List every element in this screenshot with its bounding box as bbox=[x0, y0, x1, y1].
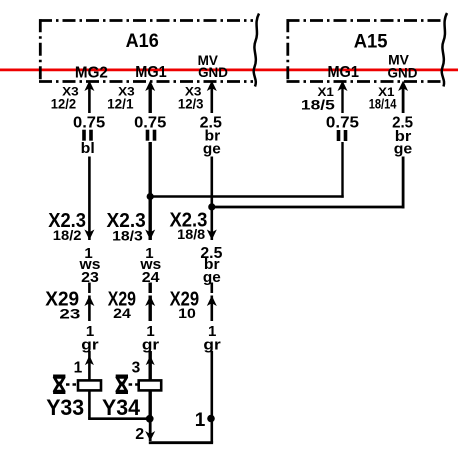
svg-text:12/2: 12/2 bbox=[51, 96, 76, 112]
svg-text:0.75: 0.75 bbox=[134, 115, 167, 132]
svg-text:gr: gr bbox=[203, 336, 220, 353]
svg-text:24: 24 bbox=[113, 305, 131, 321]
svg-text:1: 1 bbox=[195, 410, 206, 431]
svg-text:MG1: MG1 bbox=[135, 64, 167, 81]
svg-text:gr: gr bbox=[142, 336, 159, 353]
svg-text:1: 1 bbox=[74, 359, 83, 376]
svg-text:ge: ge bbox=[394, 140, 413, 157]
svg-text:24: 24 bbox=[142, 269, 160, 286]
svg-text:0.75: 0.75 bbox=[73, 115, 106, 132]
svg-text:0.75: 0.75 bbox=[326, 115, 360, 132]
svg-text:gr: gr bbox=[81, 336, 98, 353]
svg-text:Y33: Y33 bbox=[46, 395, 84, 420]
svg-text:12/3: 12/3 bbox=[178, 96, 204, 112]
svg-text:ge: ge bbox=[203, 140, 221, 157]
svg-text:A16: A16 bbox=[126, 30, 159, 52]
svg-text:ge: ge bbox=[203, 269, 221, 286]
svg-text:GND: GND bbox=[198, 64, 228, 80]
svg-text:18/14: 18/14 bbox=[369, 96, 397, 112]
svg-text:Y34: Y34 bbox=[102, 395, 140, 420]
svg-text:A15: A15 bbox=[354, 30, 388, 52]
svg-text:23: 23 bbox=[59, 305, 80, 321]
svg-text:12/1: 12/1 bbox=[107, 96, 134, 112]
svg-text:10: 10 bbox=[178, 305, 196, 321]
svg-text:23: 23 bbox=[81, 269, 99, 286]
svg-text:18/5: 18/5 bbox=[301, 96, 335, 112]
svg-text:bl: bl bbox=[81, 140, 95, 157]
svg-text:18/2: 18/2 bbox=[53, 227, 82, 243]
svg-text:MG2: MG2 bbox=[75, 64, 108, 81]
svg-text:2: 2 bbox=[135, 426, 144, 443]
svg-text:MG1: MG1 bbox=[327, 64, 359, 81]
svg-text:3: 3 bbox=[132, 359, 141, 376]
svg-text:18/8: 18/8 bbox=[177, 226, 205, 242]
svg-text:GND: GND bbox=[388, 64, 418, 80]
svg-text:18/3: 18/3 bbox=[112, 227, 143, 243]
